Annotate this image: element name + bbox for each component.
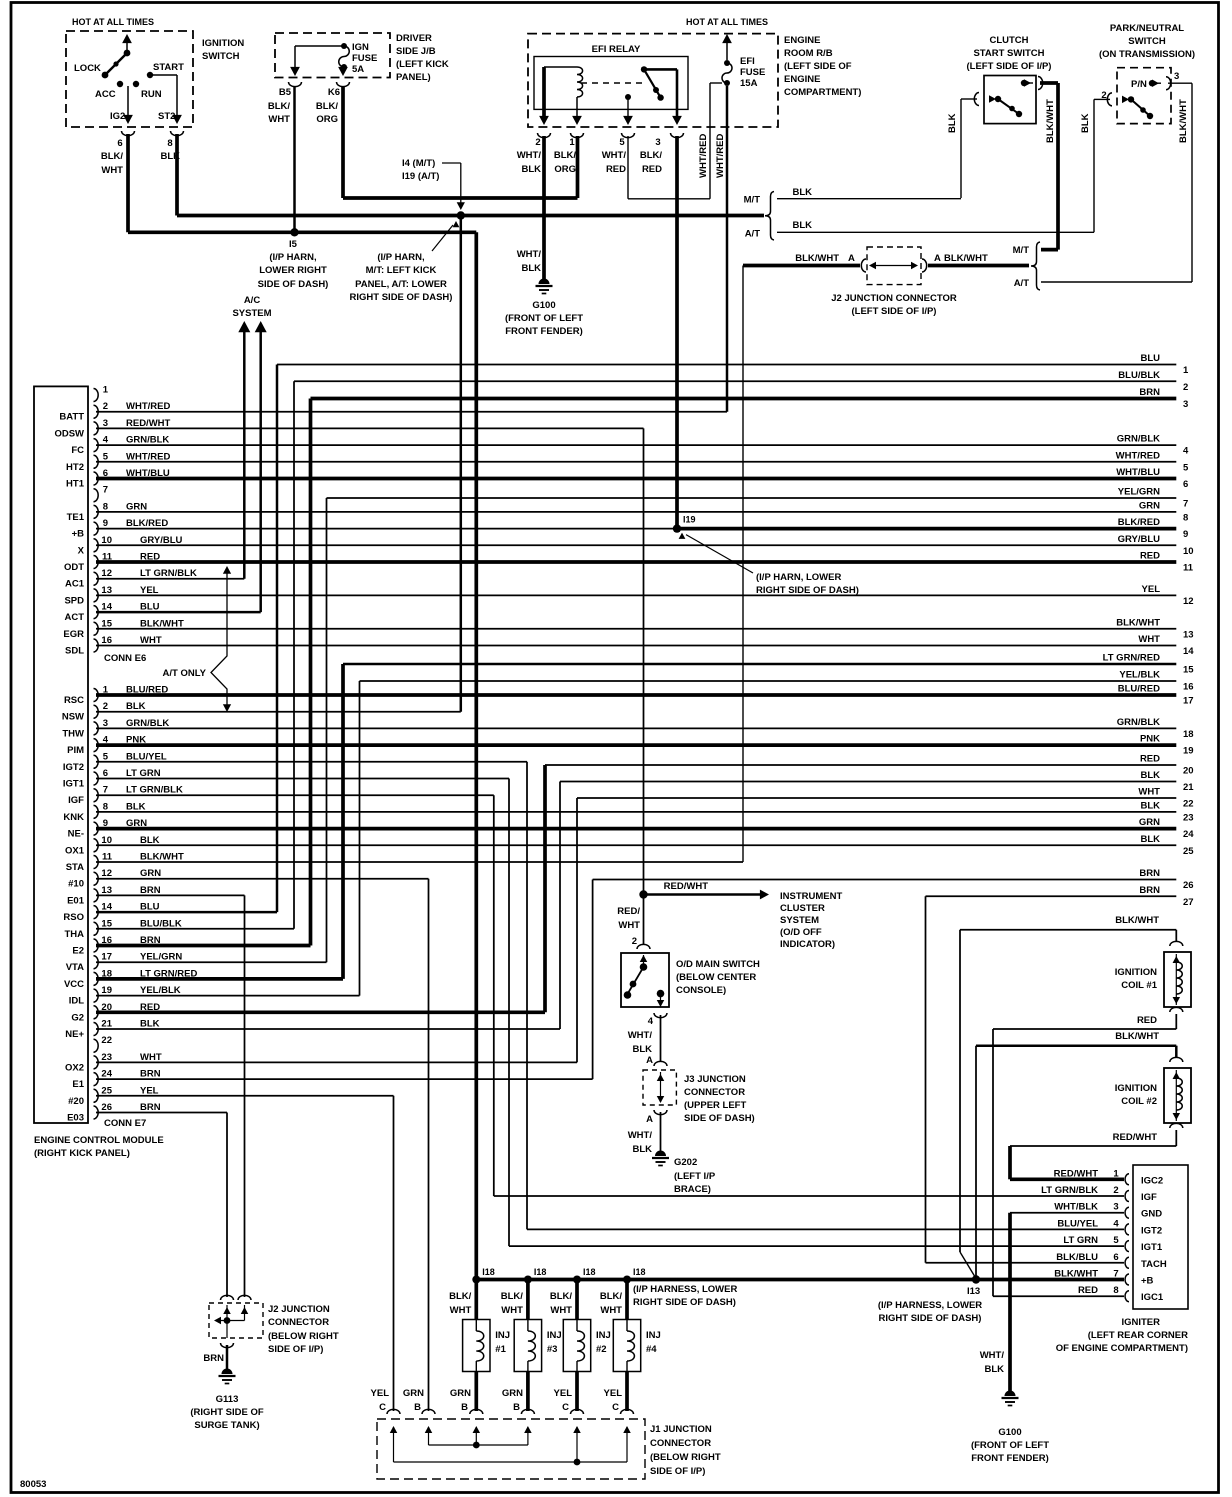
- svg-text:23: 23: [101, 1052, 112, 1063]
- wire VTA YEL/GRN row: [96, 961, 327, 963]
- vertical injector supply BLK/WHT: [474, 232, 478, 1279]
- svg-text:C: C: [379, 1402, 386, 1413]
- igniter pin 7 +B: [1125, 1274, 1129, 1285]
- svg-text:INJ: INJ: [646, 1330, 661, 1341]
- vertical IGT2 drop: [526, 762, 528, 1230]
- svg-text:WHT/BLK: WHT/BLK: [1054, 1202, 1098, 1213]
- svg-text:IDL: IDL: [69, 996, 85, 1007]
- svg-text:#1: #1: [495, 1344, 506, 1355]
- ECM conn E6 pin 11 ODT: [94, 556, 99, 569]
- svg-text:BATT: BATT: [59, 412, 84, 423]
- wire STA BLK/WHT row to J2 drop: [96, 861, 743, 863]
- wire M/T BLK to clutch start switch: [777, 198, 961, 200]
- svg-text:A: A: [646, 1114, 653, 1125]
- ECM conn E7 pin 11 STA: [94, 856, 99, 869]
- svg-text:RED: RED: [1140, 551, 1160, 562]
- ECM conn E6 pin 16 SDL: [94, 639, 99, 652]
- wire BLK to edge 21: [560, 781, 1176, 783]
- svg-text:M/T: M/T: [1013, 245, 1030, 256]
- svg-text:NE-: NE-: [68, 829, 84, 840]
- svg-text:IGNITER: IGNITER: [1121, 1317, 1160, 1328]
- svg-text:9: 9: [103, 518, 108, 529]
- svg-text:SIDE OF DASH): SIDE OF DASH): [258, 279, 329, 290]
- svg-text:START: START: [153, 62, 184, 73]
- svg-text:2: 2: [103, 401, 108, 412]
- vertical GRN drop to J1: [428, 879, 430, 1411]
- svg-text:BLK/BLU: BLK/BLU: [1056, 1252, 1098, 1263]
- svg-text:IGNITION: IGNITION: [202, 38, 244, 49]
- relay pin 5: [625, 94, 631, 100]
- ECM conn E6 pin 4 FC: [94, 439, 99, 452]
- svg-text:8: 8: [103, 801, 108, 812]
- wire: relay pin5 WHT/RED loop to EFI fuse: [627, 136, 629, 199]
- wire NSW BLK row to I4 junction: [96, 711, 461, 713]
- svg-text:A/T: A/T: [745, 229, 761, 240]
- svg-text:SIDE J/B: SIDE J/B: [396, 46, 436, 57]
- svg-text:A/C: A/C: [244, 295, 261, 306]
- svg-text:WHT: WHT: [501, 1305, 523, 1316]
- wire J2 right A BLK/WHT to brace: [928, 264, 1029, 268]
- svg-text:BLK/: BLK/: [600, 1291, 623, 1302]
- svg-text:ODT: ODT: [64, 562, 84, 573]
- wire E1 BRN row: [96, 1078, 593, 1080]
- svg-text:K6: K6: [328, 87, 340, 98]
- svg-text:ORG: ORG: [554, 164, 576, 175]
- svg-text:J2 JUNCTION CONNECTOR: J2 JUNCTION CONNECTOR: [831, 293, 957, 304]
- svg-text:FRONT FENDER): FRONT FENDER): [971, 1453, 1049, 1464]
- ECM conn E7 pin 17 VTA: [94, 956, 99, 969]
- svg-text:IGNITION: IGNITION: [1115, 967, 1157, 978]
- svg-text:12: 12: [1183, 596, 1194, 607]
- svg-text:RED/WHT: RED/WHT: [126, 418, 171, 429]
- svg-text:5A: 5A: [352, 64, 364, 75]
- ground G100 (front of left front fender): [536, 279, 553, 294]
- svg-text:GRN: GRN: [502, 1388, 523, 1399]
- svg-text:YEL/GRN: YEL/GRN: [140, 952, 182, 963]
- svg-text:RED/: RED/: [617, 906, 640, 917]
- vertical YEL/BLK riser: [359, 681, 361, 996]
- svg-text:IGN: IGN: [352, 42, 369, 53]
- ignition coil 1: [1164, 952, 1191, 1007]
- svg-text:E01: E01: [67, 895, 85, 906]
- ECM conn E6 pin 13 SPD: [94, 589, 99, 602]
- svg-text:BLK: BLK: [792, 220, 812, 231]
- svg-text:GRN: GRN: [140, 868, 161, 879]
- wire ODSW down to O/D switch: [643, 428, 645, 891]
- ECM conn E6 pin 12 AC1: [94, 572, 99, 585]
- wire A/T from P/N sw: [1041, 281, 1192, 283]
- svg-text:2: 2: [1113, 1185, 1118, 1196]
- svg-text:RED: RED: [1078, 1285, 1098, 1296]
- ECM conn E7 pin 19 IDL: [94, 989, 99, 1002]
- wire RED coil1 to IGC1 drop: [1175, 1014, 1177, 1029]
- vertical BRN drop E03 to J2: [226, 1113, 228, 1298]
- wire: RUN to IG2: [127, 86, 129, 118]
- svg-text:BLK: BLK: [1140, 800, 1160, 811]
- svg-text:1: 1: [103, 385, 109, 396]
- svg-text:BLK/WHT: BLK/WHT: [140, 852, 184, 863]
- svg-text:M/T: LEFT KICK: M/T: LEFT KICK: [366, 265, 437, 276]
- wire BRN to edge 27: [926, 895, 1177, 897]
- svg-text:WHT/RED: WHT/RED: [126, 401, 170, 412]
- svg-text:G202: G202: [674, 1157, 697, 1168]
- svg-text:5: 5: [619, 137, 625, 148]
- ECM conn E6 pin 6 HT1: [94, 472, 99, 485]
- svg-text:GRN: GRN: [403, 1388, 424, 1399]
- svg-text:(LEFT REAR CORNER: (LEFT REAR CORNER: [1088, 1330, 1188, 1341]
- svg-text:SYSTEM: SYSTEM: [232, 308, 271, 319]
- svg-text:23: 23: [1183, 812, 1194, 823]
- svg-text:BLU/YEL: BLU/YEL: [126, 751, 167, 762]
- svg-text:ENGINE: ENGINE: [784, 74, 820, 85]
- svg-text:RIGHT SIDE OF DASH): RIGHT SIDE OF DASH): [633, 1297, 736, 1308]
- svg-text:10: 10: [101, 835, 112, 846]
- svg-text:E2: E2: [72, 946, 84, 957]
- svg-text:INJ: INJ: [596, 1330, 611, 1341]
- svg-text:5: 5: [1113, 1235, 1119, 1246]
- svg-text:15: 15: [101, 918, 112, 929]
- svg-text:RED: RED: [1140, 754, 1160, 765]
- vertical BLK riser NE+: [559, 782, 561, 1030]
- svg-text:COIL #1: COIL #1: [1121, 980, 1157, 991]
- svg-text:13: 13: [101, 885, 112, 896]
- svg-text:RUN: RUN: [141, 89, 162, 100]
- svg-text:16: 16: [101, 635, 112, 646]
- wire ODSW RED/WHT row to O/D switch drop: [96, 427, 644, 429]
- ECM conn E7 pin 3 THW: [94, 722, 99, 735]
- svg-text:INDICATOR): INDICATOR): [780, 939, 835, 950]
- wire AC1 LT GRN/BLK row to A/C: [96, 578, 244, 580]
- J2 junction connector box: [867, 247, 921, 285]
- ECM conn E7 pin 9 NE-: [94, 822, 99, 835]
- svg-text:I18: I18: [482, 1267, 495, 1277]
- wire clutch sw left BLK: [961, 98, 977, 100]
- vertical YEL drop to J1: [393, 1096, 395, 1411]
- svg-text:YEL/BLK: YEL/BLK: [1119, 670, 1160, 681]
- svg-text:15A: 15A: [740, 78, 758, 89]
- wire J2 down to ECM STA row: [742, 266, 744, 863]
- svg-text:LT GRN: LT GRN: [1063, 1235, 1098, 1246]
- igniter box: [1133, 1165, 1188, 1309]
- wire X GRY/BLU row to edge 10: [96, 544, 1176, 546]
- wire KNK BLK row to edge 23: [96, 811, 1176, 813]
- junction I5: [290, 228, 298, 236]
- relay dashed link: [581, 82, 646, 84]
- svg-text:I19 (A/T): I19 (A/T): [402, 171, 439, 182]
- J3 junction connector: [643, 1070, 676, 1105]
- brace M/T A/T split left: [765, 192, 774, 241]
- svg-text:CLUTCH: CLUTCH: [989, 35, 1028, 46]
- svg-text:ACC: ACC: [95, 89, 116, 100]
- svg-text:PANEL): PANEL): [396, 72, 431, 83]
- wire RED/WHT to instrument cluster: [647, 893, 761, 896]
- svg-text:27: 27: [1183, 897, 1194, 908]
- ECM conn E6 pin 14 ACT: [94, 606, 99, 619]
- svg-text:WHT/: WHT/: [517, 150, 542, 161]
- engine control module box: [34, 386, 88, 1123]
- wire P/N left BLK: [1094, 98, 1110, 100]
- ECM conn E6 pin 1: [94, 389, 99, 402]
- svg-text:YEL: YEL: [371, 1388, 390, 1399]
- wire HT1 WHT/BLU row to edge 6: [96, 477, 1176, 481]
- svg-text:CONNECTOR: CONNECTOR: [268, 1317, 329, 1328]
- engine room R/B box: [528, 34, 778, 127]
- svg-text:WHT: WHT: [1138, 787, 1160, 798]
- svg-text:16: 16: [1183, 682, 1194, 693]
- svg-text:8: 8: [167, 138, 172, 149]
- wire: B5 BLK/WHT down to I5: [293, 86, 296, 232]
- svg-text:BLK: BLK: [1140, 834, 1160, 845]
- wire THW GRN/BLK row to edge 18: [96, 727, 1176, 729]
- wire IDL YEL/BLK row: [96, 995, 360, 997]
- ECM conn E7 pin 10 OX1: [94, 839, 99, 852]
- svg-text:5: 5: [103, 751, 109, 762]
- svg-text:6: 6: [1183, 479, 1188, 490]
- ECM conn E7 pin 24 E1: [94, 1073, 99, 1086]
- svg-text:SIDE OF I/P): SIDE OF I/P): [650, 1466, 705, 1477]
- svg-text:3: 3: [103, 418, 108, 429]
- ECM conn E7 pin 12 #10: [94, 872, 99, 885]
- svg-text:21: 21: [101, 1019, 112, 1030]
- svg-text:19: 19: [101, 985, 112, 996]
- wire clutch sw right BLK/WHT down: [1040, 81, 1058, 85]
- ECM conn E7 pin 20 G2: [94, 1006, 99, 1019]
- svg-text:(FRONT OF LEFT: (FRONT OF LEFT: [505, 313, 583, 324]
- svg-text:RIGHT SIDE OF DASH): RIGHT SIDE OF DASH): [350, 292, 453, 303]
- svg-text:G100: G100: [532, 300, 555, 311]
- svg-text:BRACE): BRACE): [674, 1184, 711, 1195]
- svg-text:CONNECTOR: CONNECTOR: [684, 1087, 745, 1098]
- svg-text:2: 2: [535, 137, 540, 148]
- svg-text:WHT: WHT: [618, 920, 640, 931]
- svg-text:(I/P HARN,: (I/P HARN,: [269, 252, 316, 263]
- svg-text:LT GRN/BLK: LT GRN/BLK: [1041, 1185, 1098, 1196]
- ECM conn E6 pin 5 HT2: [94, 455, 99, 468]
- wire LT GRN/RED to edge 15: [343, 663, 1176, 666]
- svg-text:X: X: [78, 545, 85, 556]
- svg-text:RED/WHT: RED/WHT: [664, 881, 709, 892]
- wire RSC BLU/RED row to edge 17: [96, 693, 1176, 697]
- wire IGF LT GRN/BLK row: [96, 794, 494, 796]
- svg-text:GND: GND: [1141, 1209, 1162, 1220]
- svg-text:B: B: [461, 1402, 468, 1413]
- svg-text:BRN: BRN: [140, 1102, 161, 1113]
- relay coil: [544, 66, 577, 68]
- svg-text:WHT: WHT: [450, 1305, 472, 1316]
- svg-text:IGF: IGF: [68, 795, 84, 806]
- svg-text:2: 2: [103, 701, 108, 712]
- svg-text:INJ: INJ: [547, 1330, 562, 1341]
- svg-text:BLK/: BLK/: [640, 150, 663, 161]
- svg-text:25: 25: [101, 1085, 112, 1096]
- ECM conn E7 pin 13 E01: [94, 889, 99, 902]
- wire VCC LT GRN/RED row: [96, 977, 343, 981]
- svg-text:BLK: BLK: [984, 1364, 1004, 1375]
- svg-text:HT2: HT2: [66, 462, 84, 473]
- svg-text:A: A: [848, 253, 855, 264]
- svg-text:PARK/NEUTRAL: PARK/NEUTRAL: [1110, 23, 1184, 34]
- ground G113: [219, 1369, 236, 1384]
- wire NE- GRN row to edge 24: [96, 827, 1176, 831]
- svg-text:E03: E03: [67, 1113, 84, 1124]
- svg-text:BLK/RED: BLK/RED: [126, 518, 168, 529]
- svg-text:BLK/: BLK/: [449, 1291, 472, 1302]
- svg-text:BRN: BRN: [140, 885, 161, 896]
- vertical BRN drop E01 to J2: [244, 895, 246, 1297]
- svg-text:WHT/: WHT/: [980, 1350, 1005, 1361]
- svg-text:EGR: EGR: [63, 629, 84, 640]
- vertical BLU/BLK riser: [293, 381, 295, 929]
- junction I13: [972, 1275, 980, 1283]
- svg-text:IGT1: IGT1: [1141, 1242, 1163, 1253]
- svg-text:GRN: GRN: [126, 501, 147, 512]
- svg-text:(BELOW CENTER: (BELOW CENTER: [676, 972, 756, 983]
- svg-text:WHT: WHT: [140, 635, 162, 646]
- svg-text:BLK: BLK: [126, 701, 146, 712]
- svg-text:IGNITION: IGNITION: [1115, 1083, 1157, 1094]
- svg-text:BLK: BLK: [140, 835, 160, 846]
- svg-text:P/N: P/N: [1131, 79, 1147, 90]
- svg-text:(FRONT OF LEFT: (FRONT OF LEFT: [971, 1440, 1049, 1451]
- wire BLU/BLK to edge 2: [294, 380, 1176, 382]
- svg-text:80053: 80053: [20, 1479, 46, 1490]
- svg-text:ST2: ST2: [158, 111, 175, 122]
- wire ODT RED row to edge 11: [96, 560, 1176, 564]
- wire: I4 junction down to ECM NSW row: [460, 219, 463, 712]
- EFI relay box: [534, 57, 688, 110]
- wire J2 left A BLK/WHT: [743, 264, 860, 268]
- svg-text:WHT: WHT: [140, 1052, 162, 1063]
- wire E03 BRN row to J2 drop: [96, 1112, 227, 1114]
- svg-text:SWITCH: SWITCH: [1128, 36, 1166, 47]
- svg-text:1: 1: [1183, 365, 1189, 376]
- ECM conn E6 pin 7: [94, 489, 99, 502]
- svg-text:13: 13: [1183, 629, 1194, 640]
- ECM conn E7 pin 18 VCC: [94, 972, 99, 985]
- svg-text:2: 2: [1183, 382, 1188, 393]
- svg-text:WHT/: WHT/: [628, 1030, 653, 1041]
- svg-text:G2: G2: [71, 1012, 84, 1023]
- svg-text:3: 3: [103, 718, 108, 729]
- wire +B BLK/RED row to edge 9: [96, 528, 677, 530]
- ignition coil 2: [1164, 1068, 1191, 1123]
- svg-text:RED: RED: [1137, 1015, 1157, 1026]
- svg-text:BLK/WHT: BLK/WHT: [1115, 915, 1159, 926]
- svg-text:(ON TRANSMISSION): (ON TRANSMISSION): [1099, 49, 1195, 60]
- igniter pin 6 TACH: [1125, 1257, 1129, 1268]
- svg-text:I19: I19: [683, 515, 696, 525]
- svg-text:BRN: BRN: [1139, 868, 1160, 879]
- vertical BLU riser: [276, 365, 279, 913]
- svg-text:BLK/WHT: BLK/WHT: [795, 253, 839, 264]
- ECM conn E7 pin 5 IGT2: [94, 755, 99, 768]
- ECM conn E7 pin 25 #20: [94, 1089, 99, 1102]
- svg-text:YEL: YEL: [554, 1388, 573, 1399]
- svg-text:13: 13: [101, 585, 112, 596]
- ECM conn E6 pin 9 +B: [94, 522, 99, 535]
- svg-text:WHT/: WHT/: [517, 249, 542, 260]
- svg-text:BLK: BLK: [632, 1044, 652, 1055]
- junction I19 on +B row: [673, 524, 681, 532]
- vertical IGT1 drop: [508, 779, 510, 1247]
- svg-text:GRN/BLK: GRN/BLK: [1117, 434, 1160, 445]
- svg-text:PNK: PNK: [1140, 734, 1160, 745]
- svg-text:BLK: BLK: [792, 187, 812, 198]
- svg-text:BLK: BLK: [126, 801, 146, 812]
- ground G202: [652, 1151, 669, 1166]
- igniter pin 5 IGT1: [1125, 1241, 1129, 1252]
- ECM conn E7 pin 8 KNK: [94, 805, 99, 818]
- svg-text:15: 15: [101, 618, 112, 629]
- svg-text:ROOM R/B: ROOM R/B: [784, 48, 833, 59]
- injector INJ #2: [575, 1280, 579, 1321]
- svg-text:GRN/BLK: GRN/BLK: [126, 718, 169, 729]
- wire: IG2 BLK/WHT to I5 and injector feed: [126, 134, 130, 232]
- svg-text:18: 18: [1183, 729, 1194, 740]
- svg-text:LOWER RIGHT: LOWER RIGHT: [259, 265, 327, 276]
- svg-text:STA: STA: [66, 862, 84, 873]
- svg-text:22: 22: [101, 1035, 112, 1046]
- svg-text:BLU/BLK: BLU/BLK: [140, 918, 182, 929]
- svg-text:17: 17: [1183, 696, 1194, 707]
- wire G2 RED row: [96, 1010, 545, 1014]
- svg-text:8: 8: [103, 501, 108, 512]
- vertical RED riser G2: [543, 765, 547, 1012]
- svg-text:LT GRN/BLK: LT GRN/BLK: [140, 568, 197, 579]
- svg-text:BRN: BRN: [1139, 885, 1160, 896]
- svg-text:I13: I13: [967, 1286, 980, 1297]
- wire BRN to edge 26: [593, 879, 1177, 881]
- wire BRN to edge 3: [311, 397, 1177, 401]
- svg-text:HOT AT ALL TIMES: HOT AT ALL TIMES: [686, 17, 768, 27]
- svg-text:YEL/GRN: YEL/GRN: [1118, 487, 1160, 498]
- svg-text:IGT1: IGT1: [63, 779, 85, 790]
- svg-text:BLK: BLK: [1080, 113, 1091, 133]
- junction O/D: [639, 890, 647, 898]
- wire FC GRN/BLK row to edge 4: [96, 444, 1176, 446]
- ECM conn E7 pin 4 PIM: [94, 739, 99, 752]
- svg-text:19: 19: [1183, 746, 1194, 757]
- svg-text:G113: G113: [216, 1394, 239, 1405]
- svg-text:BLK: BLK: [521, 263, 541, 274]
- svg-text:BLK/WHT: BLK/WHT: [1178, 99, 1189, 143]
- svg-text:FC: FC: [71, 445, 84, 456]
- svg-text:M/T: M/T: [744, 195, 761, 206]
- igniter pin 4 IGT2: [1125, 1224, 1129, 1235]
- wire WHT/BLK to J3: [660, 1015, 662, 1062]
- svg-text:26: 26: [101, 1102, 112, 1113]
- svg-text:YEL: YEL: [1142, 584, 1161, 595]
- svg-text:TE1: TE1: [67, 512, 85, 523]
- svg-text:HT1: HT1: [66, 479, 85, 490]
- svg-text:BLK/WHT: BLK/WHT: [140, 618, 184, 629]
- wire fuse to K6: [342, 67, 344, 70]
- svg-text:WHT: WHT: [268, 114, 290, 125]
- svg-text:10: 10: [1183, 546, 1194, 557]
- svg-text:BLK: BLK: [632, 1144, 652, 1155]
- svg-text:IGF: IGF: [1141, 1192, 1157, 1203]
- svg-text:INSTRUMENT: INSTRUMENT: [780, 891, 842, 902]
- svg-text:PIM: PIM: [67, 745, 84, 756]
- svg-text:GRN/BLK: GRN/BLK: [126, 435, 169, 446]
- wire #20 YEL row to J1 drop: [96, 1095, 394, 1097]
- svg-text:+B: +B: [72, 529, 85, 540]
- vertical BRN riser E1: [592, 880, 594, 1080]
- ECM conn E6 pin 8 TE1: [94, 505, 99, 518]
- svg-text:5: 5: [1183, 462, 1189, 473]
- svg-text:26: 26: [1183, 880, 1194, 891]
- svg-text:I5: I5: [289, 239, 298, 250]
